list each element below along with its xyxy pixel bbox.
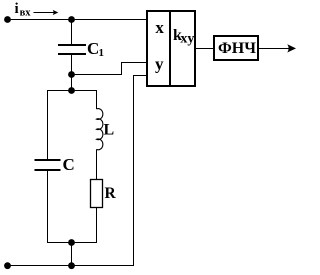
wire ground rail up to multiplier common	[8, 76, 148, 266]
wire tank left branch upper lead	[47, 91, 49, 161]
wire C1 bottom lead	[71, 54, 73, 75]
inductor L	[97, 109, 103, 150]
arrow input direction	[34, 10, 59, 15]
svg-text:вх: вх	[20, 8, 32, 19]
node A (y-input tap)	[68, 71, 75, 78]
node C (tank bottom junction)	[68, 239, 75, 246]
wire output	[258, 48, 294, 50]
svg-text:R: R	[105, 185, 117, 202]
node GND (ground terminal dot)	[4, 262, 11, 269]
arrow output	[287, 44, 296, 52]
wire tank right branch upper lead	[96, 91, 98, 110]
wire tank bottom rail	[47, 242, 97, 244]
svg-text:x: x	[155, 18, 164, 37]
svg-text:ФНЧ: ФНЧ	[218, 40, 256, 57]
op-amp multiplier U1 block	[147, 11, 195, 86]
LPF block FNCH	[214, 36, 258, 60]
capacitor C	[35, 160, 61, 170]
wire C1 top lead	[71, 20, 73, 46]
wire tank left branch lower lead	[47, 170, 49, 243]
node D (ground rail junction)	[68, 262, 75, 269]
wire multiplier output to LPF	[195, 48, 214, 50]
node B (tank top junction)	[68, 87, 75, 94]
multiplier divider	[169, 11, 171, 86]
wire tank bottom to ground rail	[71, 243, 73, 266]
svg-text:xy: xy	[180, 32, 194, 47]
node J1 (top rail / C1 junction)	[68, 16, 75, 23]
wire tank top rail	[47, 90, 97, 92]
wire R bottom lead	[96, 208, 98, 244]
wire y-input: node A to multiplier y input	[72, 63, 148, 75]
svg-text:1: 1	[99, 47, 105, 59]
resistor R	[91, 180, 103, 208]
svg-text:C: C	[87, 39, 99, 58]
capacitor C1	[58, 45, 86, 54]
wire between L and R	[96, 149, 98, 179]
svg-text:i: i	[15, 1, 19, 17]
svg-text:C: C	[63, 155, 75, 174]
svg-text:y: y	[155, 55, 164, 74]
node IN (input terminal dot)	[4, 16, 11, 23]
wire node A to node B	[71, 75, 73, 91]
wire top rail to multiplier x input	[8, 19, 148, 21]
svg-text:L: L	[104, 122, 115, 139]
